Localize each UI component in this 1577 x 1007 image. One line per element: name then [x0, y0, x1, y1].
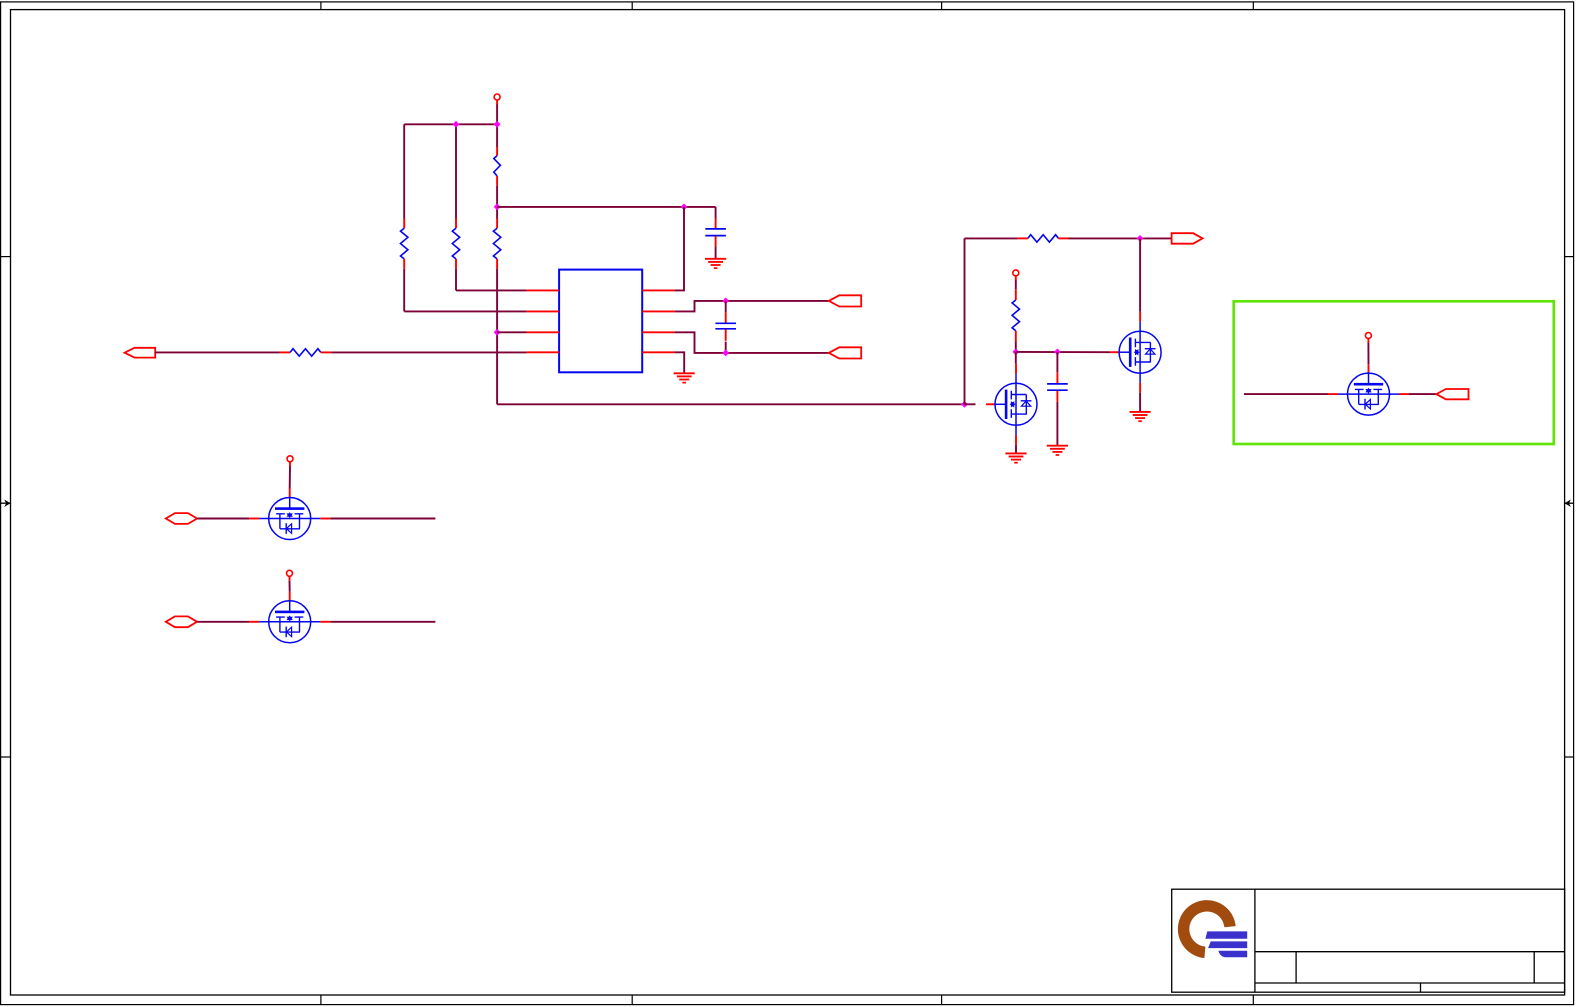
zone tick top 4 — [1252, 2, 1254, 10]
zone tick top 2 — [631, 2, 633, 10]
resistor R2 — [452, 228, 459, 259]
wire — [497, 206, 715, 208]
capacitor C2 stub — [725, 329, 727, 340]
wire — [496, 186, 498, 219]
wire — [1015, 280, 1017, 289]
capacitor C2 — [715, 323, 736, 329]
wire — [455, 124, 457, 218]
wire — [964, 238, 966, 404]
wire — [403, 269, 405, 312]
capacitor C3 stub — [1056, 391, 1058, 402]
power terminal — [287, 570, 293, 581]
node junction — [961, 401, 968, 408]
ground — [1130, 412, 1151, 421]
wire — [197, 518, 249, 520]
center marker right — [1565, 500, 1574, 507]
wire — [331, 351, 526, 353]
wire — [1016, 351, 1110, 353]
power terminal VCC top — [494, 94, 500, 105]
node junction — [494, 204, 501, 211]
pin 3 stub — [527, 331, 560, 333]
wire — [1069, 237, 1172, 239]
pin stub — [496, 176, 498, 186]
pin stub — [1059, 237, 1069, 239]
power terminal — [287, 456, 293, 467]
company logo — [1178, 900, 1247, 958]
pin 2 stub — [527, 310, 560, 312]
wire — [1015, 341, 1017, 352]
wire — [456, 289, 527, 291]
wire — [1056, 402, 1058, 446]
wire — [675, 301, 829, 312]
wire — [675, 332, 829, 353]
capacitor C3 wire — [1056, 352, 1058, 372]
capacitor C1 — [705, 229, 726, 236]
transistor Q1 — [249, 489, 330, 540]
wire — [330, 518, 435, 520]
pin stub — [321, 351, 331, 353]
wire — [965, 237, 1018, 239]
left port IN — [125, 348, 156, 358]
IC U1 — [559, 270, 642, 373]
zone tick left 2 — [1, 756, 11, 758]
port bidir P4 — [166, 513, 197, 524]
pin 8 stub — [642, 289, 674, 291]
node junction — [1054, 349, 1061, 356]
capacitor C2 stub — [725, 301, 727, 312]
pin stub — [496, 147, 498, 156]
wire — [715, 246, 717, 259]
long bottom wire — [497, 403, 964, 405]
node junction — [722, 298, 729, 305]
wire — [1015, 352, 1017, 364]
zone tick bottom 2 — [631, 995, 633, 1005]
pin 1 stub — [527, 289, 560, 291]
resistor R3 — [494, 156, 501, 176]
wire — [1409, 393, 1436, 395]
wire — [1367, 343, 1369, 364]
pin 6 stub — [642, 331, 674, 333]
node junction — [681, 204, 688, 211]
wire — [289, 581, 291, 592]
node junction — [1012, 349, 1019, 356]
node junction — [494, 121, 501, 128]
power terminal VG — [1013, 270, 1019, 281]
pin stub — [455, 219, 457, 229]
wire — [675, 352, 685, 373]
highlight green box — [1234, 301, 1554, 444]
wire — [155, 351, 280, 353]
wire — [403, 124, 405, 218]
node junction — [494, 329, 501, 336]
resistor R1 — [401, 228, 408, 259]
resistor R0 — [493, 228, 500, 259]
pin stub — [1015, 331, 1017, 342]
zone tick left 1 — [1, 256, 11, 258]
capacitor C1 stub — [715, 207, 717, 219]
resistor R5 — [1028, 235, 1059, 242]
resistor R6 — [1012, 300, 1019, 331]
pin 7 stub — [642, 310, 674, 312]
wire — [455, 269, 457, 291]
wire — [1139, 238, 1141, 311]
pin 4 stub — [527, 351, 560, 353]
wire — [330, 621, 435, 623]
zone tick top 3 — [941, 2, 943, 10]
pin stub — [280, 351, 290, 353]
center marker left — [1, 500, 11, 507]
pin stub — [496, 259, 498, 269]
capacitor C3 — [1047, 384, 1068, 390]
transistor Q2 — [249, 592, 330, 643]
zone tick top 1 — [320, 2, 322, 10]
wire — [965, 403, 976, 405]
pin stub — [1017, 237, 1027, 239]
node junction — [722, 350, 729, 357]
wire — [197, 621, 249, 623]
transistor Q5 — [1328, 364, 1409, 415]
port OUT1 — [829, 295, 861, 306]
pin stub — [403, 219, 405, 229]
wire — [1139, 393, 1141, 412]
transistor Q4 — [1110, 312, 1161, 393]
wire — [404, 310, 526, 312]
port OUT3 — [1172, 233, 1203, 244]
pin stub — [1015, 289, 1017, 300]
ground — [705, 259, 726, 268]
wire — [289, 466, 291, 488]
ground — [1005, 453, 1026, 462]
zone tick right 2 — [1565, 756, 1574, 758]
wire — [675, 207, 684, 291]
pin stub — [455, 259, 457, 269]
zone tick bottom 3 — [941, 995, 943, 1005]
ground — [674, 373, 695, 382]
node junction — [453, 121, 460, 128]
port bidir P5 — [166, 616, 197, 627]
pin 5 stub — [642, 351, 674, 353]
zone tick bottom 4 — [1252, 995, 1254, 1005]
power terminal — [1365, 333, 1371, 344]
wire — [497, 331, 526, 333]
port P7 — [1436, 389, 1468, 399]
wire — [1244, 393, 1328, 395]
port OUT2 — [829, 347, 861, 358]
wire — [1015, 445, 1017, 454]
zone tick right 1 — [1565, 256, 1574, 258]
ground — [1047, 446, 1068, 455]
wire — [496, 104, 498, 147]
resistor R4 — [290, 349, 321, 356]
wire — [496, 269, 498, 404]
transistor Q3 — [986, 364, 1037, 445]
node junction — [1137, 235, 1144, 242]
pin stub — [496, 219, 498, 229]
wire — [404, 123, 497, 125]
capacitor C1 stub — [715, 236, 717, 246]
zone tick bottom 1 — [320, 995, 322, 1005]
capacitor C3 stub — [1056, 372, 1058, 383]
wire — [725, 342, 727, 353]
pin stub — [403, 259, 405, 269]
